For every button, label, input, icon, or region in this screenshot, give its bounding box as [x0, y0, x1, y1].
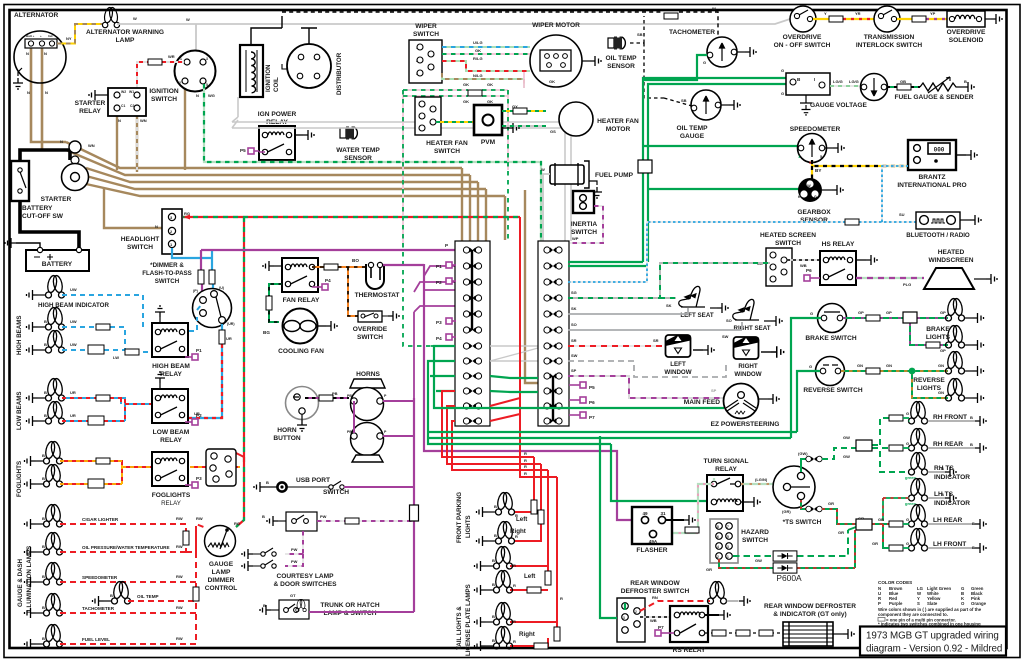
svg-text:B: B	[941, 466, 944, 471]
connector GW	[856, 440, 872, 451]
wire SW	[568, 361, 726, 377]
fuse WR	[148, 59, 162, 65]
svg-text:SPEEDOMETER: SPEEDOMETER	[82, 575, 118, 580]
svg-text:B: B	[42, 516, 45, 521]
svg-text:4: 4	[717, 545, 719, 549]
svg-text:WP: WP	[572, 236, 579, 241]
svg-text:REVERSE SWITCH: REVERSE SWITCH	[803, 387, 863, 394]
svg-text:TURN SIGNAL: TURN SIGNAL	[703, 458, 748, 465]
svg-text:U/LG: U/LG	[473, 40, 483, 45]
svg-text:GR: GR	[706, 567, 712, 572]
svg-text:REAR WINDOW DEFROSTER: REAR WINDOW DEFROSTER	[764, 603, 856, 610]
svg-text:RELAY: RELAY	[160, 437, 182, 444]
svg-text:GB: GB	[900, 79, 906, 84]
fuse GY	[513, 108, 527, 114]
svg-text:G: G	[810, 311, 813, 316]
tachometer	[669, 29, 745, 67]
svg-text:W: W	[186, 17, 190, 22]
svg-text:3: 3	[623, 616, 625, 620]
ground cooling fan	[326, 321, 337, 331]
svg-text:000: 000	[934, 147, 945, 154]
svg-text:PB: PB	[347, 430, 352, 434]
svg-text:FUEL LEVEL: FUEL LEVEL	[82, 637, 110, 642]
wire UW high beams to relay	[62, 304, 202, 352]
trunk or hatch lamp switch	[263, 593, 380, 619]
svg-text:HORNS: HORNS	[356, 371, 380, 378]
wire GY pvm to motor	[502, 104, 546, 111]
pvm	[474, 105, 508, 146]
svg-text:RW: RW	[196, 516, 203, 521]
svg-text:LIGHTS: LIGHTS	[465, 515, 472, 538]
svg-text:Y: Y	[824, 11, 827, 16]
svg-text:Ind: Ind	[48, 34, 53, 38]
fuse GP2	[926, 342, 940, 348]
gauge voltage box	[781, 68, 868, 109]
svg-text:B: B	[42, 476, 45, 481]
ground wiper motor	[590, 56, 601, 66]
reverse switch	[803, 357, 863, 395]
svg-text:B: B	[492, 638, 495, 643]
oil temp sensor top	[605, 32, 642, 70]
tachometer lamp	[36, 593, 115, 616]
svg-text:P2: P2	[196, 413, 202, 418]
svg-text:49: 49	[642, 511, 648, 516]
svg-text:49A: 49A	[649, 539, 658, 544]
connector on green bus	[638, 160, 652, 173]
svg-text:R: R	[524, 471, 527, 476]
wire GW ts to bowtie	[798, 451, 808, 472]
wire GR lh ts	[883, 498, 909, 521]
wire P horns to purple bus	[354, 398, 414, 436]
heater fan motor	[559, 102, 639, 136]
fuse dimmer U	[209, 270, 215, 284]
overdrive solenoid	[947, 11, 991, 44]
svg-text:RW: RW	[176, 516, 183, 521]
svg-text:GK: GK	[549, 79, 555, 84]
svg-text:CUT-OFF SW: CUT-OFF SW	[22, 213, 64, 220]
svg-text:P1: P1	[436, 264, 442, 269]
svg-text:P: P	[445, 243, 448, 248]
wire LGG to fuel gauge	[830, 79, 861, 86]
wire WR relay to ignition	[137, 62, 184, 92]
ez powersteering main feed	[684, 384, 780, 429]
svg-text:SWITCH: SWITCH	[413, 31, 439, 38]
wire GR hazard lower	[706, 559, 855, 572]
ground speedometer	[833, 143, 844, 153]
right window switch	[734, 337, 772, 378]
wire P thermostat-flasher bus	[424, 264, 632, 520]
wire SP	[568, 368, 723, 398]
svg-text:SW: SW	[571, 353, 578, 358]
svg-text:IGNITION: IGNITION	[265, 64, 272, 92]
svg-text:B: B	[972, 545, 975, 550]
ground starter relay	[89, 90, 100, 100]
svg-text:2: 2	[635, 610, 637, 614]
wire NY to warning lamp	[57, 24, 103, 44]
svg-text:P1: P1	[196, 348, 202, 353]
svg-text:SR: SR	[653, 338, 659, 343]
svg-text:B: B	[44, 342, 47, 347]
oil temp lamp	[104, 581, 159, 604]
svg-text:YR: YR	[855, 11, 861, 16]
svg-text:B: B	[494, 504, 497, 509]
ground bluetooth	[970, 215, 981, 225]
rn indicator lamp	[708, 581, 739, 604]
high beam relay	[152, 317, 202, 378]
fuse GB	[897, 84, 911, 90]
svg-text:GR: GR	[872, 541, 878, 546]
wire B cutoff to starter	[20, 150, 70, 161]
svg-text:WN: WN	[140, 118, 147, 123]
wire G strip row9 out left	[430, 376, 455, 391]
tail lamp right1	[486, 602, 535, 638]
svg-text:LIGHTS: LIGHTS	[926, 334, 951, 341]
speedometer lamp	[36, 562, 118, 585]
cigar lighter lamp	[36, 504, 119, 527]
wire GR ts to bowtie	[782, 500, 806, 514]
thermostat	[355, 262, 400, 299]
fuse fog 2	[88, 479, 104, 488]
wire RN defrost to lamp	[640, 595, 710, 611]
svg-text:B: B	[44, 319, 47, 324]
svg-text:GR: GR	[878, 517, 884, 522]
svg-text:3: 3	[416, 72, 418, 76]
svg-text:IGN POWER: IGN POWER	[258, 111, 297, 118]
ground brantz	[966, 150, 977, 160]
wire WG ignition to P column	[204, 84, 541, 241]
fuse BG	[266, 296, 272, 310]
svg-text:UR: UR	[70, 390, 76, 395]
svg-text:Purple: Purple	[889, 601, 903, 606]
svg-text:PLG: PLG	[903, 282, 911, 287]
svg-text:GK: GK	[475, 48, 481, 53]
wire W lamp to ignition and overdrive	[117, 19, 790, 24]
alternator	[14, 12, 66, 95]
svg-text:SU: SU	[899, 212, 905, 217]
svg-text:RELAY: RELAY	[79, 108, 101, 115]
ground hs relay	[866, 255, 877, 265]
wire WN starter relay C2	[136, 115, 138, 170]
distributor	[282, 44, 343, 95]
wire P strip fans	[201, 250, 455, 398]
svg-text:RH FRONT: RH FRONT	[933, 414, 967, 421]
svg-text:P6: P6	[589, 400, 595, 405]
svg-text:GW: GW	[755, 558, 762, 563]
wire N alternator batt feed	[31, 48, 66, 142]
svg-text:UW: UW	[70, 342, 77, 347]
wire GK wiper	[442, 48, 535, 54]
svg-text:Left: Left	[516, 516, 527, 523]
fuse UR	[219, 330, 225, 344]
svg-text:BRAKE SWITCH: BRAKE SWITCH	[805, 335, 857, 342]
lh rear lamp	[909, 504, 976, 527]
svg-text:P4: P4	[436, 336, 442, 341]
connector GP	[903, 312, 917, 323]
svg-text:YP: YP	[930, 11, 936, 16]
alternator warning lamp	[86, 7, 164, 44]
svg-text:LAMP: LAMP	[212, 569, 231, 576]
ground flasher	[684, 515, 695, 525]
svg-text:P2: P2	[436, 280, 442, 285]
fuse tail bus	[545, 571, 551, 585]
wire U headlight to dimmer	[172, 248, 213, 291]
svg-text:2: 2	[179, 81, 181, 85]
svg-text:P6: P6	[806, 268, 812, 273]
wire LGN relay to ts switch	[741, 477, 783, 484]
headlight switch	[121, 209, 190, 254]
svg-text:LG/G: LG/G	[833, 79, 843, 84]
svg-text:SO: SO	[571, 322, 577, 327]
svg-text:SWITCH: SWITCH	[357, 334, 383, 341]
battery cut-off switch	[11, 161, 64, 220]
wire N bundle starter to right	[66, 83, 538, 383]
svg-text:* indicates two switches combi: * indicates two switches combined in one…	[878, 622, 981, 627]
ground oil temp gauge	[729, 100, 740, 110]
svg-text:GR: GR	[828, 501, 834, 506]
svg-text:SWITCH: SWITCH	[323, 489, 349, 496]
svg-text:(GW): (GW)	[798, 451, 808, 456]
wire P main left bus	[413, 398, 415, 612]
svg-text:SO: SO	[726, 318, 732, 323]
svg-text:REVERSE: REVERSE	[913, 377, 945, 384]
ign power relay	[240, 111, 303, 160]
svg-text:C2: C2	[130, 104, 134, 108]
tail lamp left2	[486, 570, 513, 593]
left seat	[666, 286, 717, 319]
ground rs relay	[719, 610, 730, 620]
svg-text:COURTESY LAMP: COURTESY LAMP	[276, 573, 334, 580]
svg-text:RH TS: RH TS	[934, 465, 954, 472]
lh ts indicator	[905, 478, 970, 507]
svg-text:W: W	[712, 6, 716, 11]
svg-text:R: R	[513, 619, 516, 624]
svg-text:RIGHT: RIGHT	[738, 363, 757, 370]
ground solenoid	[991, 14, 1002, 24]
wire P usb to bus	[344, 486, 414, 488]
wire GP brake lights	[843, 310, 948, 353]
fuse tail bus2	[554, 627, 560, 641]
ground fuel pump	[592, 187, 602, 198]
svg-text:COLOR CODES: COLOR CODES	[878, 580, 912, 585]
P3 connector	[436, 318, 456, 325]
cooling fan	[278, 309, 326, 356]
svg-text:B: B	[42, 574, 45, 579]
svg-text:CIGAR LIGHTER: CIGAR LIGHTER	[82, 517, 119, 522]
title box	[860, 627, 1006, 656]
reverse light lamp 1	[946, 351, 973, 374]
fan relay	[274, 258, 331, 304]
fuse rh rear	[889, 445, 903, 451]
fuse PW	[345, 518, 359, 524]
svg-text:COOLING FAN: COOLING FAN	[278, 348, 324, 355]
high beam lamp 1	[38, 307, 77, 330]
svg-text:LEFT: LEFT	[670, 361, 686, 368]
svg-text:N: N	[44, 51, 47, 56]
fuse tail right	[534, 643, 548, 649]
wire W coil area to P column	[232, 97, 571, 241]
wire PB horn button to horns	[305, 391, 349, 398]
fuel pump	[541, 161, 634, 188]
svg-text:ON - OFF SWITCH: ON - OFF SWITCH	[774, 42, 831, 49]
svg-text:GP: GP	[940, 348, 946, 353]
svg-text:RELAY: RELAY	[160, 371, 182, 378]
low beam relay	[152, 383, 202, 444]
usb port	[265, 477, 349, 496]
svg-text:3: 3	[727, 545, 729, 549]
R labels	[513, 451, 563, 644]
right seat	[726, 299, 771, 332]
svg-text:SB: SB	[637, 32, 643, 37]
svg-text:ALTERNATOR WARNING: ALTERNATOR WARNING	[86, 29, 164, 36]
hs relay	[804, 241, 866, 285]
svg-text:GT: GT	[290, 593, 296, 598]
ground horn button	[297, 420, 307, 431]
connector GR	[856, 519, 872, 530]
svg-text:IGNITION: IGNITION	[149, 88, 179, 95]
svg-text:HEATER FAN: HEATER FAN	[426, 140, 468, 147]
svg-text:R: R	[513, 639, 516, 644]
connector chain 3	[759, 630, 773, 636]
brake light lamp 2	[946, 325, 973, 348]
svg-text:NY: NY	[66, 36, 72, 41]
battery	[16, 243, 89, 271]
wire RW oil temp	[128, 600, 196, 602]
svg-text:WIPER MOTOR: WIPER MOTOR	[532, 22, 580, 29]
svg-text:B: B	[492, 614, 495, 619]
svg-text:component they are connected t: component they are connected to.	[878, 612, 948, 617]
svg-text:RW: RW	[176, 605, 183, 610]
svg-text:G: G	[906, 541, 909, 546]
wire LGK flasher to relay	[670, 478, 714, 533]
reverse light lamp 2	[946, 378, 973, 401]
rs relay	[655, 606, 719, 654]
svg-text:MOTOR: MOTOR	[606, 126, 631, 133]
svg-text:PB: PB	[347, 394, 352, 398]
svg-text:UR: UR	[226, 336, 232, 341]
svg-text:INERTIA: INERTIA	[571, 221, 598, 228]
svg-text:P5: P5	[589, 385, 595, 390]
connector SU	[845, 219, 859, 225]
svg-text:6: 6	[717, 535, 719, 539]
svg-text:WB: WB	[650, 618, 657, 623]
svg-text:BO: BO	[352, 258, 359, 263]
svg-text:GN: GN	[938, 363, 944, 368]
foglights relay	[152, 452, 202, 507]
junction dot GN	[909, 368, 916, 375]
diode P600A	[773, 563, 797, 573]
svg-text:WIPER: WIPER	[415, 23, 437, 30]
svg-text:Left: Left	[524, 573, 535, 580]
svg-text:GAUGE VOLTAGE: GAUGE VOLTAGE	[810, 102, 868, 109]
svg-text:2: 2	[717, 555, 719, 559]
wire GS pvm-motor lower	[502, 126, 556, 134]
ground alternator	[13, 78, 23, 89]
svg-text:RN: RN	[652, 595, 658, 600]
high beam indicator	[38, 275, 110, 309]
svg-text:MAIN FEED: MAIN FEED	[684, 399, 721, 406]
courtesy lamp switch box	[262, 512, 317, 531]
turn signal relay	[703, 458, 749, 511]
svg-text:WN: WN	[88, 143, 95, 148]
svg-text:OVERRIDE: OVERRIDE	[353, 326, 388, 333]
ground right seat	[771, 316, 782, 326]
gauge lamp dimmer control	[205, 521, 241, 592]
svg-text:B: B	[941, 492, 944, 497]
wire UR dimmer to low beam relay	[189, 324, 232, 418]
fuel gauge	[861, 74, 974, 102]
svg-text:P3: P3	[436, 320, 442, 325]
svg-text:RG: RG	[234, 521, 240, 526]
svg-text:SP: SP	[711, 388, 717, 393]
ground windscreen	[986, 274, 997, 284]
svg-text:OIL TEMP: OIL TEMP	[605, 55, 637, 62]
svg-text:P600A: P600A	[776, 573, 802, 583]
svg-text:W: W	[807, 184, 811, 188]
svg-text:5: 5	[206, 83, 208, 87]
svg-text:OIL TEMP: OIL TEMP	[676, 125, 708, 132]
svg-text:ALTERNATOR: ALTERNATOR	[14, 12, 59, 19]
connector chain 1	[712, 630, 726, 636]
svg-text:HIGH BEAMS: HIGH BEAMS	[16, 315, 23, 355]
svg-text:GAUGE & DASH: GAUGE & DASH	[17, 558, 24, 607]
brake light lamp 1	[946, 298, 973, 321]
svg-text:SP: SP	[571, 368, 577, 373]
svg-text:WG: WG	[208, 93, 215, 98]
brake switch	[805, 304, 857, 343]
foglight lamp 1	[36, 441, 63, 464]
defroster grid	[783, 622, 843, 646]
foglight lamp 2	[36, 464, 63, 487]
svg-text:GN: GN	[857, 363, 863, 368]
svg-text:N: N	[118, 118, 121, 123]
fuse LW	[125, 349, 139, 355]
svg-text:RW: RW	[176, 544, 183, 549]
svg-text:LG/G: LG/G	[849, 79, 859, 84]
fuse GN	[866, 368, 880, 374]
svg-text:B: B	[492, 558, 495, 563]
svg-text:B: B	[266, 480, 269, 485]
ground gearbox sensor	[832, 185, 843, 195]
rh ts indicator	[905, 452, 970, 481]
bluetooth radio	[906, 212, 970, 239]
ground defroster grid	[843, 629, 854, 639]
fuse fog 1	[96, 458, 110, 464]
svg-text:SW: SW	[722, 334, 729, 339]
fuse tail left	[527, 587, 541, 593]
wire GN reverse lights	[841, 363, 948, 398]
svg-text:1: 1	[180, 57, 182, 61]
svg-text:GP: GP	[858, 310, 864, 315]
svg-text:(LG/N): (LG/N)	[755, 477, 768, 482]
svg-text:HEADLIGHT: HEADLIGHT	[121, 236, 159, 243]
svg-text:EZ POWERSTEERING: EZ POWERSTEERING	[711, 421, 780, 428]
dimmer flash-to-pass switch	[142, 262, 235, 328]
ignition coil	[240, 45, 280, 97]
svg-text:FAN RELAY: FAN RELAY	[283, 297, 320, 304]
svg-text:& DOOR SWITCHES: & DOOR SWITCHES	[273, 581, 337, 588]
connector on P bus	[410, 505, 419, 521]
low beam lamp 2	[38, 401, 76, 424]
ground override switch	[388, 311, 399, 321]
svg-text:Right: Right	[519, 631, 535, 638]
svg-text:GEARBOX: GEARBOX	[797, 209, 831, 216]
ground high beam relay	[155, 306, 165, 317]
wire WB switch to hs relay	[787, 260, 820, 268]
svg-text:C1: C1	[121, 104, 125, 108]
svg-text:SWITCH: SWITCH	[127, 244, 153, 251]
wire PLG relay to windscreen	[856, 278, 924, 287]
svg-text:PVM: PVM	[481, 139, 496, 146]
